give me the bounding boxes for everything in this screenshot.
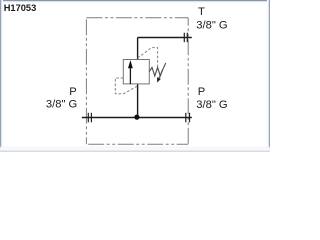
svg-text:H17053: H17053 (4, 3, 37, 13)
svg-text:3/8" G: 3/8" G (196, 20, 227, 32)
svg-text:T: T (198, 6, 205, 18)
svg-text:3/8" G: 3/8" G (196, 99, 227, 111)
svg-text:3/8" G: 3/8" G (46, 99, 77, 111)
svg-text:P: P (198, 86, 205, 98)
svg-text:P: P (69, 86, 76, 98)
